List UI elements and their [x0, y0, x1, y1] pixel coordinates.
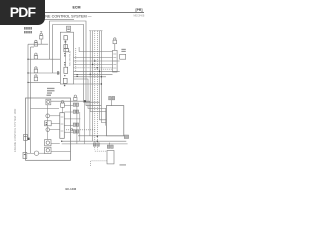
long wire y143.9 — [62, 143, 128, 145]
tiny label below bottom-center box — [120, 164, 127, 165]
inside box: bottom-left circle — [34, 151, 38, 155]
branch connector B4 — [34, 75, 38, 81]
wire bus to column y59.2 — [28, 58, 60, 60]
wires stacked boxes to relay — [51, 143, 71, 151]
dashed wire into tall component — [95, 68, 113, 70]
column inner wire — [65, 40, 67, 67]
connector pairs right of box — [73, 103, 78, 133]
bus2 top corner — [31, 46, 35, 48]
tiny legend text block under badge — [24, 27, 32, 33]
lower-left big box — [26, 98, 71, 160]
inside box: left chain rect — [45, 121, 52, 126]
svg-text:IGN SW RELAY: IGN SW RELAY — [69, 50, 72, 66]
wire loop inner top — [53, 25, 100, 103]
branch connector B3 — [34, 67, 38, 73]
right big box — [106, 106, 123, 136]
connector pair above bottom-center box — [107, 145, 113, 148]
dashed wire with circle — [66, 129, 96, 131]
junction square on wire y101.2 — [84, 100, 86, 102]
long wire y141.2 — [62, 140, 127, 142]
connector on wire y101.2 — [74, 95, 77, 101]
wire circle to right — [39, 152, 45, 154]
tab marks — [24, 136, 27, 155]
tiny text block above box — [47, 88, 55, 96]
junction dots crossings — [90, 60, 103, 77]
bottom-center component box — [107, 151, 114, 164]
inside box: left chain circle 2 — [46, 128, 50, 132]
inside box: top connector — [46, 99, 51, 105]
component column box — [60, 32, 73, 84]
junction dots on long wires — [61, 136, 98, 142]
connector above relay — [61, 101, 65, 108]
dashed vertical right of column — [75, 48, 77, 71]
connector pair on top of right box — [109, 96, 115, 100]
branch connector B1 — [34, 40, 38, 46]
inside box: stacked connector boxes — [45, 140, 51, 154]
inside box: left chain circle — [46, 114, 50, 118]
wire y84 column bottom to bundle — [74, 83, 102, 85]
long wire y135.8 — [78, 135, 124, 137]
tab1 junction dot — [28, 138, 30, 140]
connector E1 — [39, 32, 43, 39]
junction marks right of column — [76, 74, 78, 77]
wires chain to relay — [50, 116, 60, 130]
dashed wires to bottom-center box — [91, 151, 107, 166]
right tall component — [113, 50, 118, 72]
crossing horizontal wires — [74, 47, 120, 77]
connector K1 top of column — [67, 26, 71, 31]
svg-text:ECM: ECM — [73, 6, 81, 10]
connector square at right box corner — [124, 135, 128, 139]
wire turning down at x85.5 — [74, 79, 107, 125]
section underline — [44, 18, 74, 20]
svg-text:[PR]: [PR] — [136, 8, 143, 12]
small box right of tall component — [120, 54, 126, 59]
svg-text:NE CONTROL SYSTEM —: NE CONTROL SYSTEM — — [45, 14, 91, 18]
connector E1 stem — [40, 39, 42, 44]
junction marks left of column — [57, 71, 59, 74]
branch connector B2 — [34, 53, 38, 59]
junction dot y84 — [101, 83, 102, 84]
svg-text:MEC940B: MEC940B — [134, 15, 145, 18]
left tab box 1 — [24, 135, 28, 141]
ticks inside tall component — [113, 54, 116, 68]
svg-text:EC-1436: EC-1436 — [66, 187, 77, 191]
marks inside chain rect — [46, 122, 47, 125]
vertical wire bundle — [90, 31, 106, 150]
wire y101.2 across box top — [51, 101, 90, 136]
stem into relay — [62, 107, 64, 112]
hatched connector pair at bundle bottom — [93, 143, 99, 146]
tiny label right — [121, 49, 125, 52]
wire bus to column y81 — [28, 81, 60, 83]
inside box: relay — [60, 113, 65, 139]
wire tab2 to circle — [27, 152, 35, 154]
left bus top corner wire — [28, 43, 48, 45]
PDF badge overlay — [0, 0, 45, 25]
left bus line 2 — [30, 47, 32, 153]
header rule — [4, 12, 144, 14]
wires relay to right — [64, 105, 80, 132]
junction dots left bus — [27, 59, 28, 84]
svg-text:ENGINE CONTROL SYSTEM : WIR: ENGINE CONTROL SYSTEM : WIR — [13, 109, 17, 152]
column internal parts — [63, 36, 68, 84]
wire bus to column y73 — [28, 72, 60, 74]
bundle top ticks — [89, 30, 102, 32]
wire loop outer top — [49, 21, 101, 106]
verticals right of box — [77, 101, 85, 144]
antenna connector above tall component — [113, 38, 117, 51]
left bus line 1 — [27, 44, 29, 139]
tick above connector pair — [108, 143, 110, 145]
ticks inside relay — [61, 117, 64, 131]
stem into right box top — [111, 100, 113, 106]
column inner dark marks — [64, 41, 66, 86]
left tab box 2 — [23, 152, 27, 158]
inside box: left chain stem — [47, 105, 49, 140]
inside box: wire y108.6 — [31, 108, 60, 110]
